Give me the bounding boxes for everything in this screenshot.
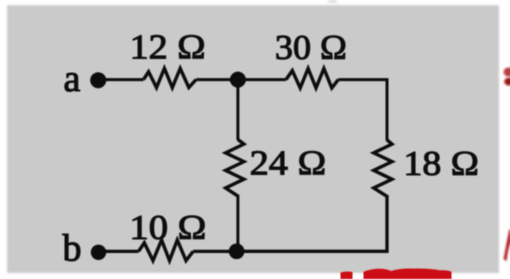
wire R18 to bottom-right corner to bottom node	[235, 195, 387, 251]
terminal dot b	[91, 245, 106, 260]
faint smudge top edge	[328, 0, 337, 3]
svg-text:10 Ω: 10 Ω	[129, 208, 206, 247]
resistor R30 zigzag	[286, 69, 338, 89]
wire R12 to node T	[196, 78, 240, 81]
wire R30 to top-right corner and down	[338, 80, 387, 140]
wire node T down to R24	[236, 78, 239, 140]
svg-text:18 Ω: 18 Ω	[403, 144, 479, 183]
red mark right edge middle upper lobe (cut-off glyph)	[504, 67, 510, 76]
svg-text:24 Ω: 24 Ω	[250, 143, 327, 182]
red bar bottom (cut-off text) piece 1	[341, 272, 353, 279]
wire R10 to bottom node	[193, 250, 237, 253]
resistor R24 zigzag	[226, 140, 244, 197]
node dot bottom (junction of R10/R24/bottom wire)	[229, 244, 245, 260]
wire R24 to bottom node	[236, 195, 239, 252]
svg-text:a: a	[64, 58, 81, 100]
node dot top (junction of R12/R30/R24)	[230, 72, 246, 88]
red bar bottom (cut-off text) piece 2	[364, 269, 452, 279]
svg-text:30 Ω: 30 Ω	[275, 28, 347, 67]
red diagonal stroke bottom-right (cut-off glyph)	[504, 230, 510, 262]
terminal dot a	[90, 72, 106, 88]
wire a-dot to R12	[100, 78, 144, 81]
resistor R12 zigzag	[144, 68, 197, 87]
resistor R18 zigzag	[374, 140, 392, 197]
red mark right edge middle lower lobe (cut-off glyph)	[504, 78, 510, 86]
svg-text:12 Ω: 12 Ω	[130, 28, 206, 67]
svg-text:b: b	[63, 228, 82, 270]
wire node T to R30	[236, 78, 286, 81]
wire b-dot to R10	[100, 250, 139, 253]
resistor R10 zigzag	[139, 240, 194, 261]
